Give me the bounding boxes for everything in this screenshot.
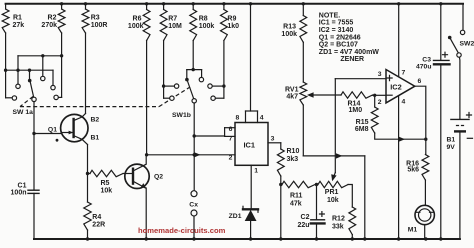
svg-text:R9: R9 [227,16,236,23]
svg-text:ZENER: ZENER [340,56,364,63]
svg-text:3k3: 3k3 [287,156,299,163]
svg-text:Q2 = BC107: Q2 = BC107 [319,42,358,49]
svg-text:100k: 100k [199,23,215,30]
svg-text:R13: R13 [283,24,296,31]
svg-text:27k: 27k [13,22,25,29]
svg-text:IC1 = 7555: IC1 = 7555 [319,20,354,27]
svg-text:C1: C1 [18,183,27,190]
svg-text:IC2: IC2 [390,83,402,92]
svg-text:8: 8 [236,115,240,122]
svg-text:IC2 = 3140: IC2 = 3140 [319,27,354,34]
svg-text:1k0: 1k0 [227,23,239,30]
svg-text:R6: R6 [133,16,142,23]
svg-text:2: 2 [378,99,382,106]
svg-text:R15: R15 [356,119,369,126]
svg-text:R4: R4 [92,214,101,221]
svg-text:B1: B1 [447,137,456,144]
svg-text:Q2: Q2 [154,174,163,181]
svg-text:9V: 9V [447,144,456,151]
svg-text:3: 3 [271,136,275,143]
svg-text:6M8: 6M8 [355,126,369,133]
svg-text:4: 4 [260,115,264,122]
svg-text:R3: R3 [91,15,100,22]
svg-text:R5: R5 [101,180,110,187]
svg-text:IC1: IC1 [244,141,256,150]
svg-text:R8: R8 [199,16,208,23]
svg-text:270k: 270k [41,22,57,29]
svg-text:2: 2 [229,155,233,162]
svg-text:4: 4 [402,99,406,106]
svg-text:7: 7 [402,70,406,77]
svg-text:100k: 100k [281,31,297,38]
svg-text:ZD1 = 4V7 400mW: ZD1 = 4V7 400mW [319,49,380,56]
svg-text:SW1b: SW1b [172,112,191,119]
svg-text:1: 1 [254,168,258,175]
svg-text:10M: 10M [168,23,182,30]
svg-text:Cx: Cx [189,201,198,208]
svg-text:NOTE.: NOTE. [319,12,340,19]
svg-text:R11: R11 [290,193,303,200]
svg-text:5k6: 5k6 [407,167,419,174]
svg-text:C2: C2 [301,214,310,221]
svg-text:R10: R10 [287,148,300,155]
svg-text:M1: M1 [408,226,418,233]
svg-text:22u: 22u [297,222,309,229]
svg-text:PR1: PR1 [325,189,339,196]
svg-text:ZD1: ZD1 [229,213,242,220]
svg-text:470u: 470u [416,64,432,71]
svg-text:3: 3 [378,71,382,78]
svg-text:SW2: SW2 [460,41,474,48]
svg-text:22R: 22R [92,222,105,229]
svg-text:R1: R1 [13,15,22,22]
svg-text:100n: 100n [11,190,27,197]
svg-text:B1: B1 [91,135,100,142]
svg-text:33k: 33k [332,224,344,231]
svg-text:1M0: 1M0 [349,107,363,114]
svg-text:C3: C3 [422,57,431,64]
svg-text:4k7: 4k7 [286,93,298,100]
svg-text:47k: 47k [290,201,302,208]
svg-text:R2: R2 [48,15,57,22]
svg-text:homemade-circuits.com: homemade-circuits.com [138,226,226,235]
svg-text:100R: 100R [91,22,108,29]
svg-text:7: 7 [229,136,233,143]
svg-text:10k: 10k [327,197,339,204]
svg-text:Q1 = 2N2646: Q1 = 2N2646 [319,34,361,41]
svg-text:R12: R12 [332,216,345,223]
svg-text:10k: 10k [101,187,113,194]
svg-text:6: 6 [418,78,422,85]
svg-text:6: 6 [229,126,233,133]
svg-text:SW 1a: SW 1a [13,109,34,116]
svg-text:R7: R7 [168,16,177,23]
svg-text:100k: 100k [128,23,144,30]
svg-text:Q1: Q1 [48,127,57,134]
svg-text:B2: B2 [91,117,100,124]
